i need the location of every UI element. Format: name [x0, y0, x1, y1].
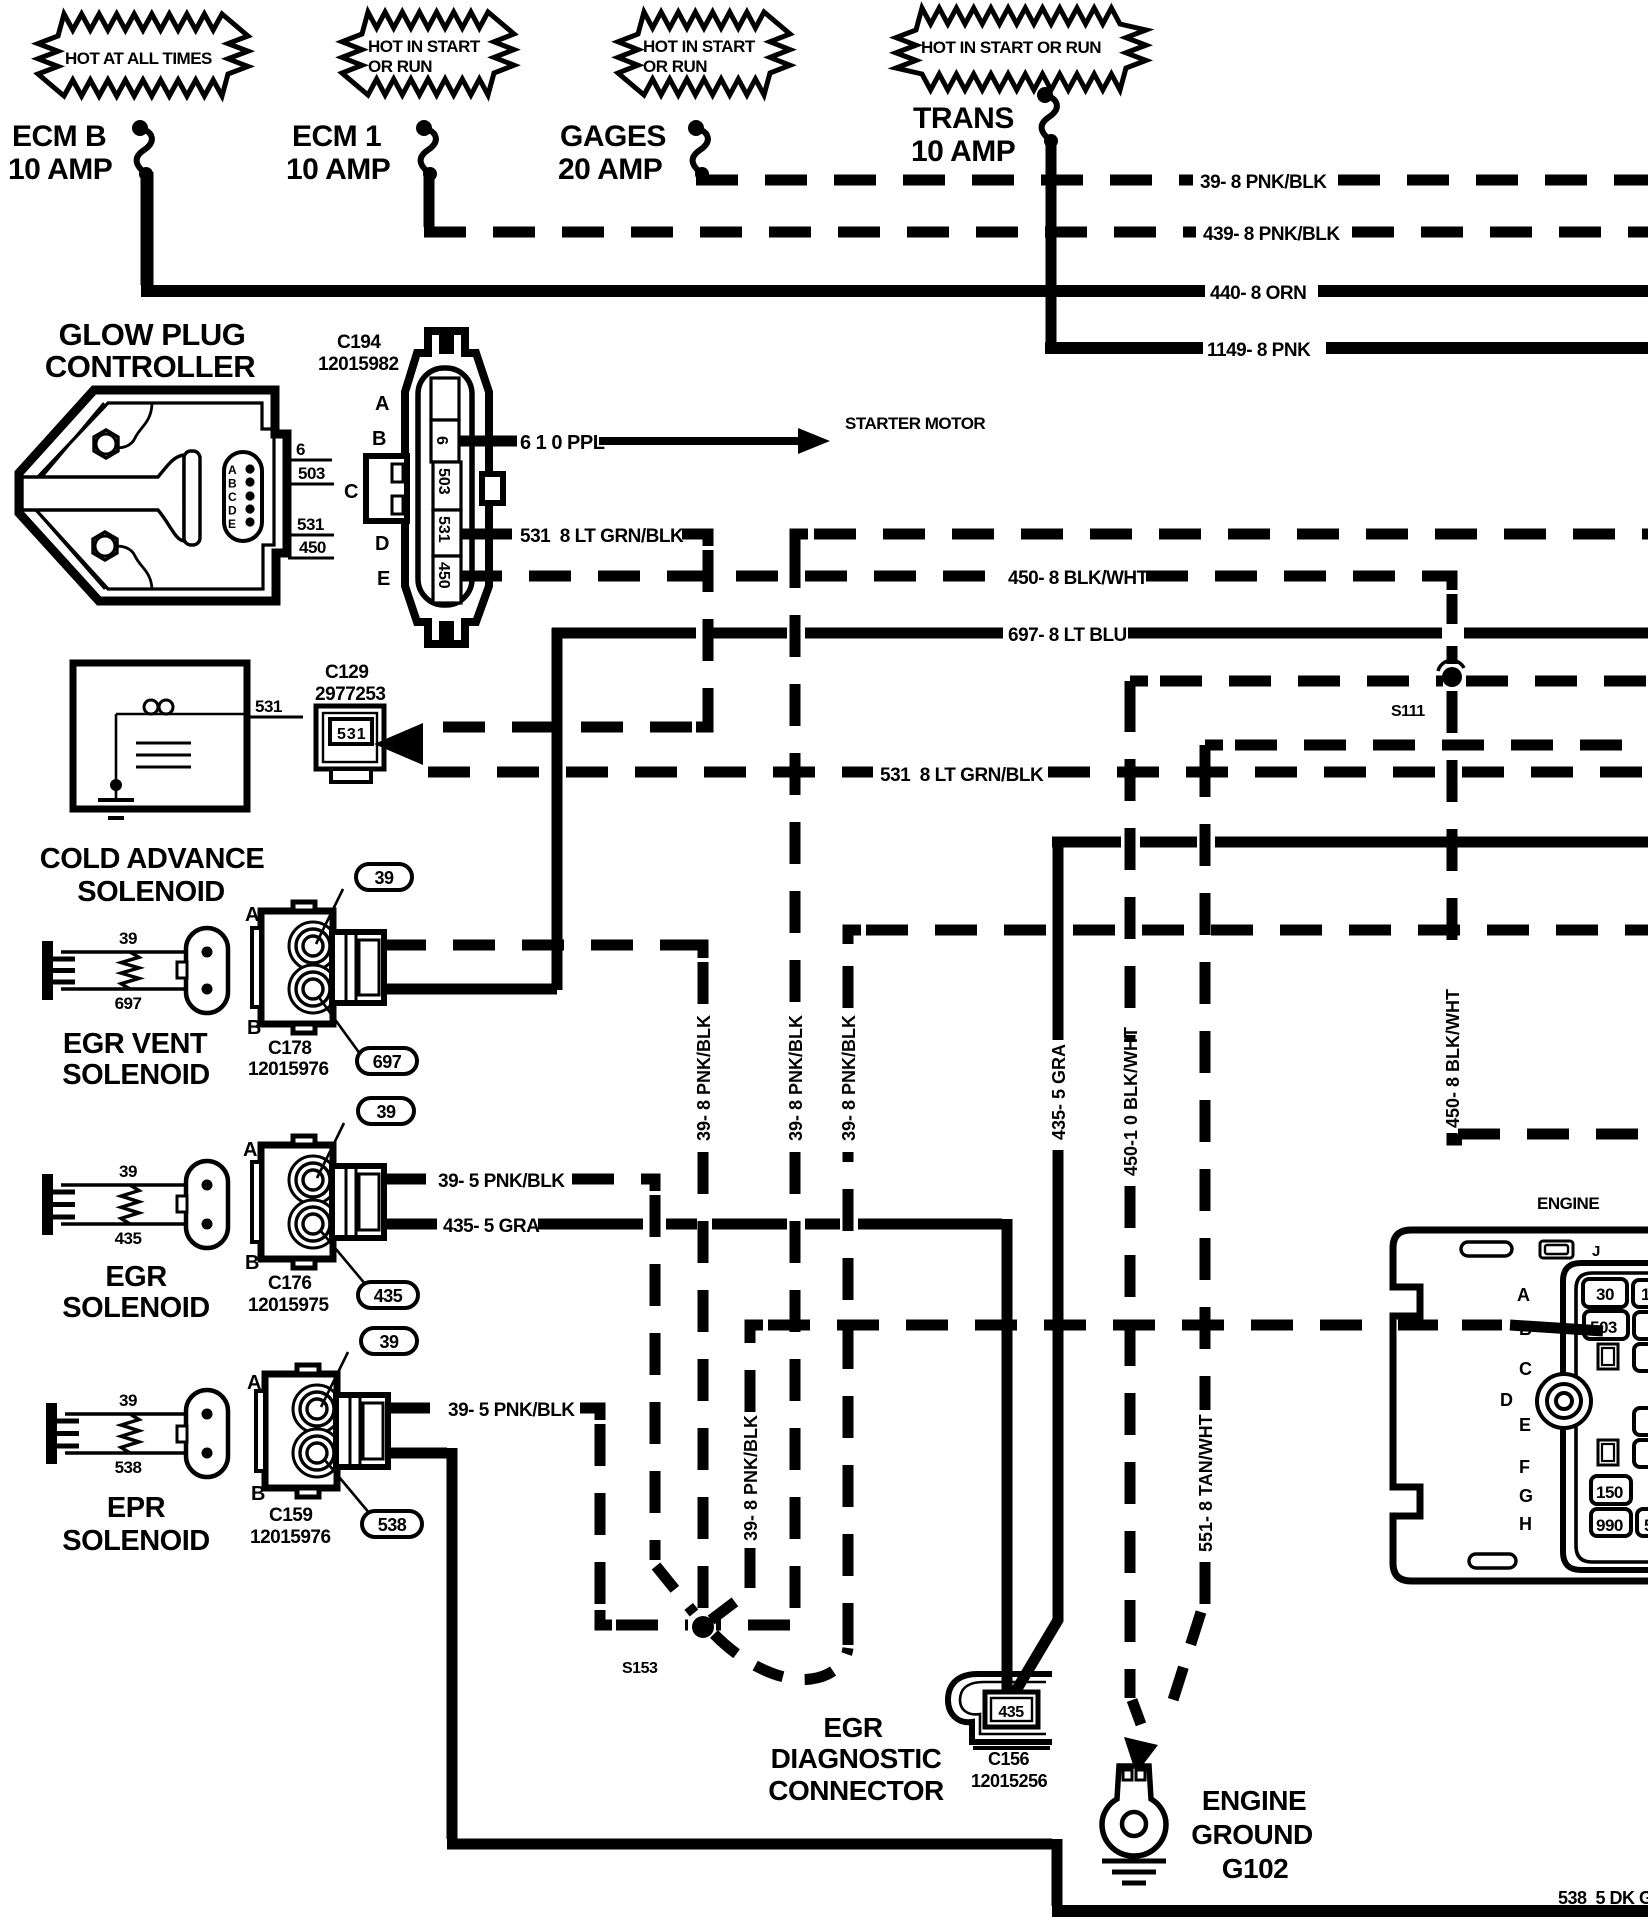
EPR solenoid symbol	[46, 1390, 228, 1477]
svg-text:12015976: 12015976	[248, 1059, 329, 1080]
glow plug controller pin pad A-E	[224, 452, 262, 541]
glow plug controller body	[19, 390, 287, 601]
svg-text:C156: C156	[988, 1749, 1030, 1769]
wire 6 1 0 PPL to starter motor	[460, 428, 830, 454]
svg-text:C: C	[228, 490, 237, 504]
svg-text:538: 538	[378, 1515, 407, 1535]
svg-text:TRANS: TRANS	[913, 102, 1014, 135]
svg-text:C159: C159	[269, 1505, 312, 1526]
svg-text:450- 8 BLK/WHT: 450- 8 BLK/WHT	[1443, 989, 1463, 1128]
wire 39-8 PNK/BLK top bus from GAGES	[696, 172, 1648, 193]
svg-text:C176: C176	[268, 1273, 311, 1294]
wire dashed from elbow to right at y 745	[1205, 745, 1648, 758]
fuse TRANS 10 AMP	[911, 102, 1015, 168]
svg-text:503: 503	[298, 464, 325, 483]
svg-text:C129: C129	[325, 662, 368, 683]
svg-text:1149- 8 PNK: 1149- 8 PNK	[1207, 340, 1311, 361]
svg-text:39: 39	[119, 1391, 137, 1410]
svg-text:CONNECTOR: CONNECTOR	[768, 1775, 944, 1806]
svg-text:39: 39	[374, 868, 394, 888]
connector C176 body	[243, 1136, 384, 1274]
svg-text:39- 8 PNK/BLK: 39- 8 PNK/BLK	[786, 1015, 806, 1141]
wire 39-8 PNK/BLK vertical V3 from S153 to engine	[711, 1325, 1388, 1620]
svg-text:D: D	[375, 533, 389, 555]
svg-text:A: A	[228, 463, 237, 477]
svg-text:H: H	[1519, 1514, 1532, 1534]
svg-text:EGR: EGR	[823, 1712, 882, 1743]
svg-text:39- 8 PNK/BLK: 39- 8 PNK/BLK	[839, 1015, 859, 1141]
svg-text:990: 990	[1596, 1516, 1623, 1535]
svg-text:39: 39	[376, 1102, 396, 1122]
wire from S111 right at y 681	[1466, 676, 1648, 687]
svg-text:39: 39	[119, 1162, 137, 1181]
wire 551-8 TAN/WHT to engine ground	[1166, 755, 1216, 1722]
svg-text:C: C	[1519, 1359, 1532, 1379]
cold advance solenoid wire 531 stub	[190, 697, 303, 717]
svg-text:20 AMP: 20 AMP	[558, 153, 662, 186]
fuse callout HOT AT ALL TIMES	[38, 14, 248, 96]
svg-text:S111: S111	[1391, 703, 1425, 720]
svg-text:J: J	[1592, 1243, 1600, 1260]
glow plug controller heading	[45, 317, 255, 384]
svg-text:30: 30	[1596, 1285, 1614, 1304]
wire arrow into C129	[374, 723, 423, 765]
fuse callout HOT IN START OR RUN (ECM 1)	[342, 12, 514, 95]
svg-text:OR RUN: OR RUN	[368, 57, 432, 76]
svg-text:E: E	[228, 517, 236, 531]
svg-text:D: D	[228, 504, 237, 518]
svg-text:EGR: EGR	[105, 1261, 167, 1293]
svg-text:A: A	[245, 904, 259, 926]
svg-text:39- 5 PNK/BLK: 39- 5 PNK/BLK	[448, 1400, 575, 1421]
fuse callout HOT IN START OR RUN (TRANS)	[896, 8, 1146, 90]
svg-text:435- 5 GRA: 435- 5 GRA	[443, 1216, 540, 1237]
glow plug controller T-handle	[22, 451, 200, 545]
svg-text:A: A	[247, 1372, 261, 1394]
engine ground ring terminal G102	[1102, 1766, 1166, 1856]
svg-text:39: 39	[119, 929, 137, 948]
wire 450-8 BLK/WHT vertical below S111	[1443, 691, 1648, 1140]
svg-text:439- 8 PNK/BLK: 439- 8 PNK/BLK	[1203, 224, 1340, 245]
wire 435 into C156	[1007, 1452, 1058, 1694]
fuse wire squiggle ECM 1	[416, 120, 437, 181]
wire 39-5 PNK/BLK from C159 pin A	[388, 1400, 688, 1625]
svg-text:39- 8 PNK/BLK: 39- 8 PNK/BLK	[1200, 172, 1327, 193]
svg-text:435: 435	[115, 1229, 142, 1248]
connector C129 label	[315, 662, 385, 705]
svg-text:E: E	[377, 568, 390, 590]
EGR solenoid heading	[62, 1261, 209, 1324]
svg-text:503: 503	[435, 468, 452, 495]
svg-text:B: B	[251, 1483, 265, 1505]
tag 39 for C176 pin A	[317, 1098, 414, 1178]
svg-text:B: B	[245, 1252, 259, 1274]
svg-text:S153: S153	[622, 1660, 658, 1677]
svg-text:OR RUN: OR RUN	[643, 57, 707, 76]
tag 39 for C159 pin A	[321, 1328, 417, 1407]
wire 531 8 LT GRN/BLK from C194 pin D to C129	[428, 526, 708, 727]
svg-text:435- 5 GRA: 435- 5 GRA	[1049, 1044, 1069, 1140]
svg-text:E: E	[1519, 1415, 1531, 1435]
fuse ECM B 10 AMP	[8, 120, 112, 186]
engine connector fuse boxes	[1537, 1279, 1648, 1536]
wire 439-8 PNK/BLK from ECM 1	[424, 176, 1648, 245]
splice S111	[1391, 660, 1464, 720]
svg-text:GLOW PLUG: GLOW PLUG	[59, 317, 246, 352]
svg-text:11: 11	[1641, 1285, 1648, 1304]
svg-text:ENGINE: ENGINE	[1202, 1785, 1306, 1816]
svg-text:CONTROLLER: CONTROLLER	[45, 349, 255, 384]
wire 435-5 GRA horizontal at y 847	[1049, 837, 1648, 1456]
svg-text:10 AMP: 10 AMP	[286, 153, 390, 186]
svg-text:EPR: EPR	[107, 1492, 166, 1524]
EGR diagnostic connector heading	[768, 1712, 944, 1806]
wire 1149-8 PNK from TRANS	[1045, 140, 1648, 361]
svg-text:GROUND: GROUND	[1191, 1819, 1313, 1850]
glow plug controller bolt 2	[93, 532, 117, 560]
svg-text:F: F	[1519, 1457, 1530, 1477]
svg-text:10 AMP: 10 AMP	[8, 153, 112, 186]
svg-text:10 AMP: 10 AMP	[911, 135, 1015, 168]
starter motor text	[845, 414, 985, 433]
EGR vent solenoid symbol	[42, 928, 228, 1013]
wire 697 from C178 pin B	[382, 984, 557, 995]
EGR solenoid symbol	[42, 1161, 228, 1248]
svg-text:B: B	[247, 1017, 261, 1039]
svg-text:G: G	[1519, 1486, 1533, 1506]
svg-text:HOT IN START: HOT IN START	[368, 37, 481, 56]
engine ground G102 heading	[1191, 1785, 1313, 1884]
svg-text:12015982: 12015982	[318, 354, 399, 375]
cold advance solenoid coil	[116, 700, 191, 767]
wire 450-1 0 BLK/WHT vertical to engine ground	[1121, 690, 1146, 1738]
svg-text:12015256: 12015256	[971, 1771, 1048, 1791]
EGR vent solenoid heading	[62, 1028, 209, 1091]
svg-text:538 5 DK GRN: 538 5 DK GRN	[1558, 1888, 1648, 1908]
svg-text:435: 435	[998, 1704, 1024, 1721]
svg-text:2977253: 2977253	[315, 684, 385, 705]
svg-text:538: 538	[115, 1458, 142, 1477]
engine connector heading	[1537, 1194, 1599, 1213]
wire 531 8 LT GRN/BLK from C129 to right edge	[428, 765, 1648, 786]
svg-text:STARTER MOTOR: STARTER MOTOR	[845, 414, 985, 433]
wire 39-8 PNK/BLK vertical V2 to splice S153	[716, 546, 806, 1625]
tag 538 for C159 pin B	[324, 1459, 422, 1537]
svg-text:SOLENOID: SOLENOID	[62, 1525, 209, 1557]
svg-text:HOT IN START OR RUN: HOT IN START OR RUN	[921, 38, 1101, 57]
connector C159 label	[250, 1505, 331, 1548]
svg-text:150: 150	[1596, 1483, 1623, 1502]
svg-text:531: 531	[337, 726, 367, 743]
arrow into engine ground terminal	[1124, 1737, 1158, 1774]
glow plug controller bolt 1	[94, 430, 118, 458]
connector C176 label	[248, 1273, 329, 1316]
svg-text:ENGINE: ENGINE	[1537, 1194, 1599, 1213]
wire 39 dashed to right edge at y 534	[795, 534, 1648, 548]
svg-text:C178: C178	[268, 1038, 311, 1059]
svg-text:GAGES: GAGES	[560, 120, 666, 153]
svg-text:6: 6	[296, 440, 305, 459]
svg-text:G102: G102	[1222, 1853, 1289, 1884]
fuse callout HOT IN START OR RUN (GAGES)	[618, 12, 790, 95]
connector C178 label	[248, 1038, 329, 1080]
svg-text:450: 450	[435, 562, 452, 589]
svg-text:SOLENOID: SOLENOID	[62, 1292, 209, 1324]
tag 435 for C176 pin B	[320, 1230, 418, 1308]
svg-text:12015975: 12015975	[248, 1295, 329, 1316]
svg-text:440- 8 ORN: 440- 8 ORN	[1210, 283, 1306, 304]
svg-text:39- 8 PNK/BLK: 39- 8 PNK/BLK	[741, 1415, 761, 1541]
EPR solenoid heading	[62, 1492, 209, 1557]
svg-text:531: 531	[435, 516, 452, 543]
svg-text:531: 531	[255, 697, 282, 716]
svg-text:A: A	[375, 393, 389, 415]
svg-text:5: 5	[1644, 1516, 1648, 1535]
svg-text:450: 450	[299, 538, 326, 557]
svg-text:531: 531	[297, 515, 324, 534]
connector C194 label	[318, 332, 399, 375]
svg-text:B: B	[372, 428, 386, 450]
svg-text:39: 39	[379, 1332, 399, 1352]
svg-text:C: C	[344, 481, 358, 503]
svg-text:12015976: 12015976	[250, 1527, 331, 1548]
wire 39-5 PNK/BLK from C176 pin A	[384, 1171, 694, 1613]
svg-text:435: 435	[374, 1286, 403, 1306]
cold advance solenoid ground	[98, 714, 134, 818]
svg-text:HOT AT ALL TIMES: HOT AT ALL TIMES	[65, 49, 212, 68]
wire 538 from C159 pin B to bottom right	[388, 1448, 1648, 1911]
connector C159 body	[247, 1365, 388, 1505]
svg-text:531 8 LT GRN/BLK: 531 8 LT GRN/BLK	[880, 765, 1044, 786]
cold advance solenoid heading	[40, 843, 265, 908]
fuse GAGES 20 AMP	[558, 120, 666, 186]
engine connector body	[1393, 1230, 1648, 1581]
svg-text:450- 8 BLK/WHT: 450- 8 BLK/WHT	[1008, 568, 1149, 589]
cold advance solenoid box	[73, 663, 247, 809]
svg-text:697- 8 LT BLU: 697- 8 LT BLU	[1008, 625, 1127, 646]
fuse ECM 1 10 AMP	[286, 120, 390, 186]
splice S153	[622, 1616, 714, 1677]
svg-text:EGR VENT: EGR VENT	[63, 1028, 208, 1060]
svg-text:A: A	[243, 1139, 257, 1161]
connector C194 right tab	[482, 474, 503, 503]
connector C178 body	[245, 902, 384, 1039]
connector C129 body	[316, 706, 384, 782]
connector C156 label	[971, 1749, 1048, 1791]
connector C194 C-pin bracket	[366, 456, 407, 521]
svg-text:39- 5 PNK/BLK: 39- 5 PNK/BLK	[438, 1171, 565, 1192]
wire 440-8 ORN from ECM B	[141, 172, 1648, 304]
svg-text:COLD ADVANCE: COLD ADVANCE	[40, 843, 265, 875]
svg-text:SOLENOID: SOLENOID	[62, 1059, 209, 1091]
wire 39 from C178 pin A to splice S153	[384, 945, 714, 1612]
svg-text:A: A	[1517, 1285, 1530, 1305]
connector C156 body	[948, 1674, 1052, 1748]
svg-text:6 1 0 PPL: 6 1 0 PPL	[520, 432, 605, 454]
connector C194 body	[405, 331, 489, 644]
svg-text:ECM B: ECM B	[12, 120, 106, 153]
connector C194 pin letters	[344, 393, 390, 590]
svg-text:531 8 LT GRN/BLK: 531 8 LT GRN/BLK	[520, 526, 684, 547]
engine connector pin letters A-H	[1500, 1285, 1533, 1534]
connector C156 435 box	[985, 1692, 1038, 1727]
fuse wire squiggle ECM B	[132, 120, 153, 181]
fuse wire squiggle TRANS	[1037, 87, 1058, 148]
glow plug controller wire stubs 6 503 531 450	[288, 440, 334, 558]
svg-text:DIAGNOSTIC: DIAGNOSTIC	[771, 1743, 942, 1774]
svg-text:ECM 1: ECM 1	[292, 120, 381, 153]
svg-text:C194: C194	[337, 332, 381, 353]
wire dashed from elbow to S111 at y 681	[1130, 681, 1443, 694]
svg-text:697: 697	[373, 1052, 402, 1072]
svg-text:D: D	[1500, 1390, 1513, 1410]
tag 39 for C178 pin A	[316, 864, 412, 944]
svg-text:SOLENOID: SOLENOID	[77, 876, 224, 908]
svg-text:B: B	[228, 477, 237, 491]
tag 697 for C178 pin B	[318, 996, 417, 1074]
svg-text:39- 8 PNK/BLK: 39- 8 PNK/BLK	[694, 1015, 714, 1141]
svg-text:697: 697	[115, 994, 142, 1013]
wire 39-8 PNK/BLK vertical V4 from S153 to right edge	[714, 930, 1648, 1680]
svg-text:450-1 0 BLK/WHT: 450-1 0 BLK/WHT	[1121, 1027, 1141, 1176]
wire 435-5 GRA from C176 pin B	[384, 1216, 1007, 1690]
wire 39 into engine pin B	[1398, 1325, 1603, 1331]
svg-text:HOT IN START: HOT IN START	[643, 37, 756, 56]
fuse wire squiggle GAGES	[688, 120, 709, 181]
wire 697-8 LT BLU	[552, 625, 1648, 990]
wire 450-8 BLK/WHT from C194 pin E to S111	[460, 568, 1452, 664]
svg-text:6: 6	[433, 436, 450, 445]
ground symbol G102	[1102, 1861, 1166, 1883]
svg-text:551- 8 TAN/WHT: 551- 8 TAN/WHT	[1196, 1414, 1216, 1552]
